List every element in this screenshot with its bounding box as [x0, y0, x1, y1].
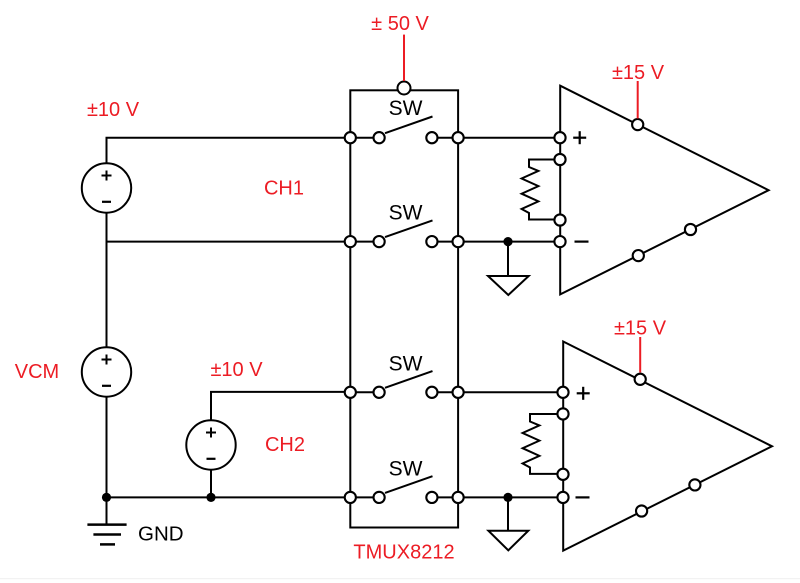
svg-text:SW: SW: [389, 353, 423, 376]
op-amp U2: [563, 342, 772, 551]
label SW4: [389, 457, 423, 480]
svg-text:±15 V: ±15 V: [614, 318, 667, 340]
label CH2: [265, 434, 305, 456]
svg-text:±10 V: ±10 V: [87, 99, 140, 121]
label SW3: [389, 353, 423, 376]
svg-text:SW: SW: [389, 457, 423, 480]
wire SW box row2 to op-amp U1 - input: [457, 241, 560, 243]
junction node U1 inverting input / ground: [503, 237, 512, 246]
svg-text:GND: GND: [138, 523, 184, 546]
red supply wire U1 +/-15V: [637, 81, 639, 119]
svg-text:± 50 V: ± 50 V: [371, 13, 429, 35]
svg-text:VCM: VCM: [15, 361, 59, 383]
switch SW4: [345, 476, 464, 503]
U2 plus input sign: [577, 387, 590, 400]
svg-text:SW: SW: [389, 97, 423, 120]
red supply wire +/-50V: [403, 35, 405, 81]
label CH1: [264, 178, 304, 200]
junction node U2 inverting input / ground: [503, 493, 512, 502]
junction node CH2/ground bus: [206, 493, 215, 502]
op-amp U2 pin circles: [557, 374, 700, 517]
chassis ground at U2: [488, 497, 528, 550]
label TMUX8212: [353, 542, 454, 564]
voltage source CH2: [186, 420, 235, 469]
switch SW3: [345, 371, 464, 398]
wire CH2 top to SW box row3: [211, 392, 351, 420]
U1 minus input sign: [575, 241, 589, 243]
label U1 +/-15V: [612, 62, 665, 84]
label U2 +/-15V: [614, 318, 667, 340]
faint page rule at bottom: [0, 578, 800, 579]
wire ground bus row4 to SW box: [107, 496, 352, 498]
wire CH1 minus / VCM top vertical: [106, 213, 108, 347]
svg-text:±10 V: ±10 V: [210, 359, 263, 381]
label VCM: [15, 361, 59, 383]
wire SW box row1 to op-amp U1 + input: [457, 137, 560, 139]
wire VCM bottom vertical to GND node: [106, 397, 108, 497]
supply terminal pin +/-50V: [398, 82, 411, 95]
voltage source VCM: [82, 347, 131, 396]
chassis ground at U1: [488, 242, 529, 295]
resistor R2 feedback: [523, 414, 559, 474]
op-amp U1 pin circles: [554, 119, 696, 261]
label +/-10V CH2: [210, 359, 263, 381]
svg-text:CH2: CH2: [265, 434, 305, 456]
U2 minus input sign: [576, 496, 590, 498]
label SW2: [389, 202, 423, 225]
multiplexer U1 TMUX8212 box: [350, 90, 458, 527]
red supply wire U2 +/-15V: [639, 337, 641, 373]
op-amp U1: [560, 86, 768, 295]
junction node VCM/GND: [102, 493, 111, 502]
resistor R1 feedback: [522, 160, 556, 220]
svg-text:TMUX8212: TMUX8212: [353, 542, 454, 564]
wire CH1 plus terminal to SW box row1: [107, 138, 352, 163]
label +/-10V CH1: [87, 99, 140, 121]
wire CH2 bottom stub: [210, 470, 212, 497]
wire SW box row3 to op-amp U2 + input: [457, 391, 563, 393]
label GND: [138, 523, 184, 546]
svg-text:SW: SW: [389, 202, 423, 225]
wire SW box row4 to op-amp U2 - input: [457, 496, 563, 498]
svg-text:CH1: CH1: [264, 178, 304, 200]
switch SW1: [345, 117, 464, 144]
earth ground symbol GND: [87, 497, 126, 544]
label +/-50V: [371, 13, 429, 35]
wire row2 CH1 minus to SW box: [107, 241, 352, 243]
switch SW2: [345, 220, 464, 247]
label SW1: [389, 97, 423, 120]
U1 plus input sign: [573, 131, 586, 144]
voltage source CH1: [82, 163, 131, 212]
svg-text:±15 V: ±15 V: [612, 62, 665, 84]
